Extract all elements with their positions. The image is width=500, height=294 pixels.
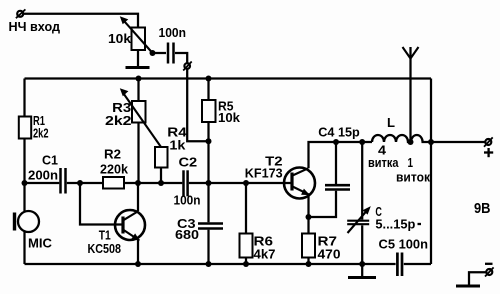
svg-text:C4 15p: C4 15p (318, 124, 360, 139)
svg-text:C5 100n: C5 100n (379, 237, 429, 252)
svg-text:9В: 9В (474, 201, 491, 217)
svg-text:220k: 220k (100, 162, 129, 177)
svg-text:виток: виток (396, 170, 430, 185)
svg-text:2k2: 2k2 (33, 126, 49, 141)
svg-text:2k2: 2k2 (105, 113, 132, 128)
svg-text:1k: 1k (169, 138, 186, 153)
svg-text:200n: 200n (28, 168, 58, 183)
svg-text:R2: R2 (104, 147, 121, 162)
svg-text:L: L (387, 115, 395, 130)
svg-text:100n: 100n (174, 193, 201, 208)
svg-text:C1: C1 (42, 153, 58, 168)
svg-text:1: 1 (408, 155, 414, 170)
svg-text:10k: 10k (218, 110, 241, 125)
svg-text:НЧ вход: НЧ вход (9, 19, 61, 34)
svg-text:KF173: KF173 (245, 166, 283, 181)
svg-text:витка: витка (368, 155, 399, 170)
svg-text:4k7: 4k7 (254, 247, 276, 262)
svg-text:KC508: KC508 (88, 241, 122, 256)
svg-text:470: 470 (318, 247, 341, 262)
svg-text:5...15p: 5...15p (375, 217, 415, 232)
svg-text:680: 680 (175, 227, 199, 242)
svg-text:100n: 100n (159, 25, 187, 40)
svg-text:10k: 10k (108, 31, 132, 46)
svg-text:MIC: MIC (28, 235, 53, 250)
svg-text:C2: C2 (179, 154, 198, 169)
